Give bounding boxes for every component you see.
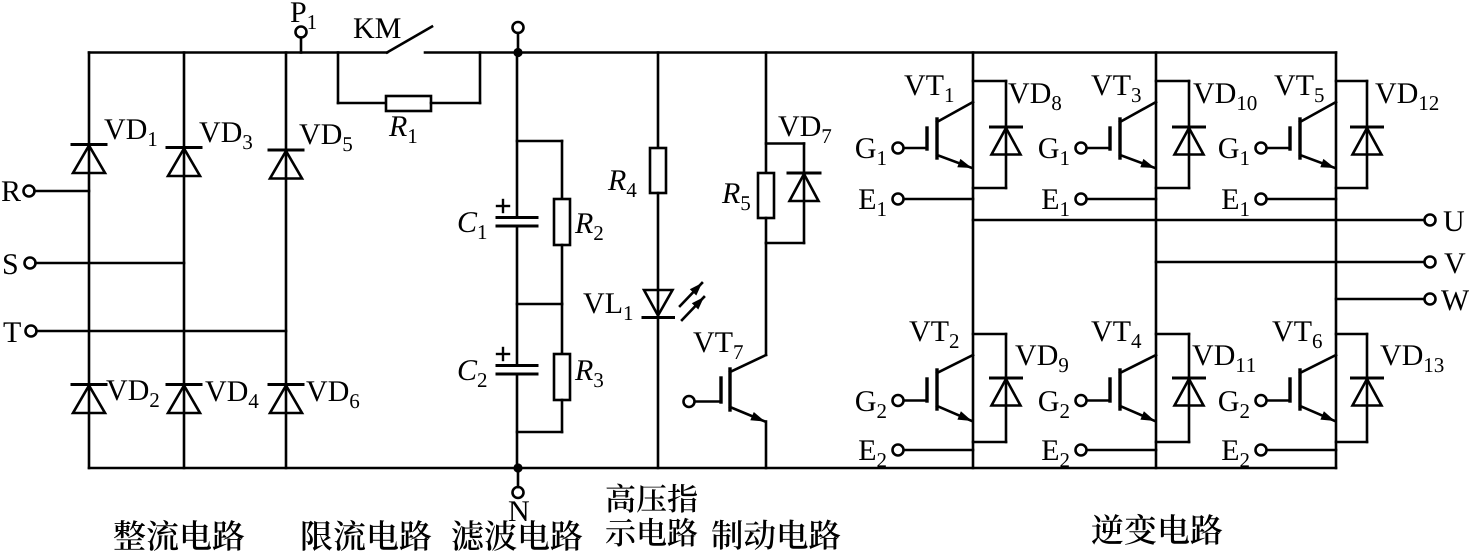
label VT7 [693,332,743,359]
wire R4 to LED [657,193,660,317]
wire E2 lead VT2 [903,449,973,452]
diode VD1 [72,143,106,146]
LED VL1 arrows [680,283,702,306]
label VL1 [583,293,632,320]
wire output V [1156,261,1425,264]
label R4 [608,170,637,197]
wire E1 lead VT3 [1086,198,1156,201]
junction node N dot [513,463,522,472]
label VD7 [778,116,831,143]
wire E2 lead VT6 [1266,449,1336,452]
label G2 of VT2 [856,391,886,418]
wire VD7 bottom jumper [766,242,804,245]
label inverter section 逆变电路 [1092,514,1222,545]
label VD13 [1380,345,1443,372]
wire R1 loop right [431,102,480,105]
label VT1 [904,75,953,102]
label C1 [459,212,487,239]
label P1 [291,2,316,29]
LED VL1 [644,290,673,316]
label N [509,501,529,521]
label G1 of VT3 [1039,138,1069,165]
wire VT7 emitter to bus [765,422,768,469]
diode VD13 [1352,377,1383,380]
diode VD4 [167,383,201,386]
label VD6 [306,381,359,408]
wire inverter leg VT1/VT2 vertical [972,53,975,469]
terminal N [513,487,524,498]
wire filter main vertical middle [516,226,519,366]
resistor R2 [554,199,570,245]
terminal G1 of VT3 [1076,143,1087,154]
label E1 of VT1 [859,189,886,216]
diode VD11 [1174,377,1205,380]
diode VD7 [788,172,820,175]
label G1 of VT1 [856,138,886,165]
terminal DC+ [513,22,524,33]
wire E1 lead VT1 [903,198,973,201]
terminal W [1425,294,1436,305]
label U [1444,211,1464,231]
wire E1 lead VT5 [1266,198,1336,201]
wire filter mid junction [561,245,564,304]
label T [4,322,21,342]
wire brake branch top [765,53,768,174]
terminal G2 of VT6 [1256,395,1267,406]
wire R4 branch upper [657,53,660,149]
wire VD10 top branch [1156,80,1189,83]
transistor VT3 [1120,102,1156,122]
wire P1 stem [300,38,303,53]
terminal G2 of VT4 [1076,395,1087,406]
wire R1 loop left [337,53,340,104]
label HV indicator section 高压指 [607,484,698,513]
diode VD2 [72,383,106,386]
capacitor C2 [497,364,537,367]
label R5 [722,183,750,210]
terminal E2 of VT4 [1076,445,1087,456]
label C1 plus [497,205,509,207]
terminal G2 of VT2 [893,395,904,406]
junction node P dot [513,48,522,57]
label VD9 [1015,345,1068,372]
label VD3 [199,122,252,149]
wire VD9 top branch [973,333,1006,336]
label C2 plus [497,353,509,355]
terminal E2 of VT2 [893,445,904,456]
resistor R3 [554,354,570,400]
wire VD12 top branch [1336,80,1367,83]
terminal E2 of VT6 [1256,445,1267,456]
diode VD3 [167,146,201,149]
wire VD11 bottom branch [1156,441,1189,444]
label filter section 滤波电路 [452,520,582,551]
terminal E1 of VT3 [1076,194,1087,205]
diode VD5 [269,149,303,152]
label S [4,254,17,274]
terminal E1 of VT5 [1256,194,1267,205]
label R3 [575,360,603,387]
label VD4 [205,381,258,408]
wire rectifier leg 1 [88,53,91,469]
terminal P1 [296,27,307,38]
label R [2,181,21,201]
terminal V [1425,257,1436,268]
label VT6 [1272,321,1322,348]
transistor VT7 [730,355,766,372]
label VT4 [1091,321,1141,348]
label VD11 [1192,345,1255,372]
transistor VT1 [937,102,973,122]
label VT2 [909,321,958,348]
transistor VT4 [1120,355,1156,373]
transistor VT6 [1300,355,1336,373]
label G2 of VT4 [1039,391,1069,418]
terminal R [24,186,35,197]
label V [1444,253,1465,273]
resistor R1 [386,96,431,111]
label HV indicator section 示电路 [606,518,697,547]
terminal S [25,258,36,269]
wire R5 to jumper [765,218,768,243]
label R1 [389,116,417,143]
wire E2 lead VT4 [1086,449,1156,452]
label VD5 [299,124,352,151]
label VD2 [106,380,158,407]
wire VD11 top branch [1156,333,1189,336]
wire S input [36,262,185,265]
terminal VT7 gate [684,396,695,407]
wire VD10 bottom branch [1156,187,1189,190]
diode VD10 [1174,126,1205,129]
wire filter bottom branch [561,400,564,432]
label braking section 制动电路 [712,520,840,550]
wire output U [973,219,1425,222]
wire VD13 top branch [1336,333,1367,336]
wire rectifier leg 2 [183,53,186,469]
transistor VT5 [1300,102,1336,122]
wire rectifier leg 3 [285,53,288,469]
wire VD7 top jumper [766,142,804,145]
diode VD6 [269,383,303,386]
wire top DC bus P (right of KM) [425,51,1336,54]
terminal G1 of VT5 [1256,143,1267,154]
label E1 of VT3 [1042,189,1069,216]
transistor VT2 [937,355,973,373]
wire LED to bus [657,318,660,469]
wire inverter leg VT5/VT6 vertical [1335,53,1338,469]
terminal E1 of VT1 [893,194,904,205]
label E2 of VT6 [1222,440,1249,467]
terminal T [26,326,37,337]
wire filter main vertical upper [516,53,519,218]
diode VD8 [991,126,1022,129]
wire top DC bus P (left of KM) [89,51,387,54]
resistor R4 [650,148,666,193]
label VT3 [1091,75,1140,102]
label E2 of VT2 [859,440,886,467]
label E1 of VT5 [1222,189,1249,216]
label VD10 [1193,83,1256,110]
wire bottom DC bus N [89,467,1336,470]
wire VD8 bottom branch [973,187,1006,190]
wire VD8 top branch [973,80,1006,83]
wire output W [1336,298,1425,301]
label R2 [575,213,603,240]
label VD1 [104,119,156,146]
wire VD9 bottom branch [973,441,1006,444]
diode VD12 [1352,126,1383,129]
wire filter top branch [517,140,562,143]
wire N stem [517,468,520,487]
wire filter main vertical lower [516,374,519,468]
wire VD12 bottom branch [1336,187,1367,190]
resistor R5 [758,173,774,218]
terminal U [1425,215,1436,226]
wire brake to VT7 [765,243,768,355]
switch KM blade [387,27,432,53]
terminal G1 of VT1 [893,143,904,154]
label rectifier section 整流电路 [114,520,244,551]
label E2 of VT4 [1042,440,1069,467]
label VD8 [1008,83,1061,110]
label G1 of VT5 [1219,138,1249,165]
diode VD9 [991,377,1022,380]
wire T input [37,330,287,333]
wire DC+ stem [517,33,520,53]
wire inverter leg VT3/VT4 vertical [1155,53,1158,469]
capacitor C1 [497,216,537,219]
label VD12 [1375,83,1438,110]
label C2 [459,360,487,387]
wire VD13 bottom branch [1336,441,1367,444]
label current-limit section 限流电路 [303,520,432,551]
label VT5 [1274,75,1323,102]
wire R input [35,190,90,193]
label KM [354,18,401,38]
label G2 of VT6 [1219,391,1249,418]
label W [1441,290,1469,310]
